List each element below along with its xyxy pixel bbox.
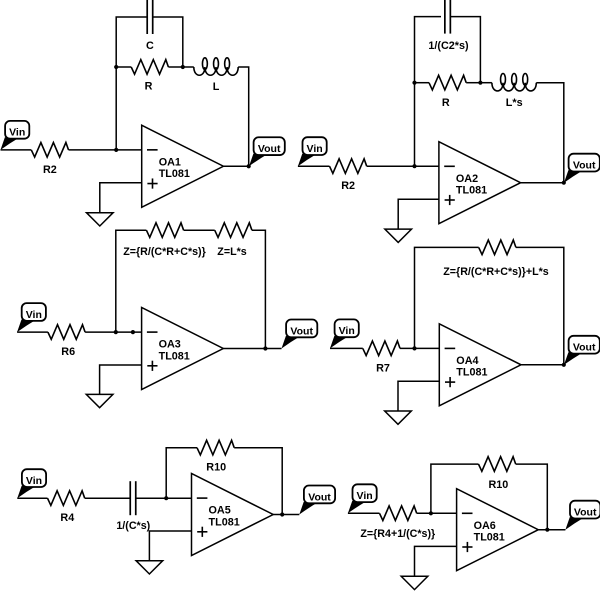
node R left junction (OA2) [412, 81, 416, 85]
wire Vin to Z resistor (OA6) [348, 512, 380, 514]
svg-text:1/(C2*s): 1/(C2*s) [428, 40, 469, 52]
node output junction (OA2) [562, 181, 566, 185]
op-amp OA6 [457, 489, 539, 571]
svg-text:Vin: Vin [339, 325, 355, 337]
svg-text:Z={R/(C*R+C*s)}: Z={R/(C*R+C*s)} [123, 246, 206, 258]
svg-text:R10: R10 [488, 479, 508, 491]
wire R4 to capacitor (OA5) [85, 497, 131, 499]
capacitor C [146, 0, 154, 52]
wire R left lead (OA2) [415, 82, 430, 84]
node R right junction (OA2) [478, 81, 482, 85]
wire R right lead (OA1) [168, 66, 182, 68]
wire feedback top middle (OA3) [184, 229, 215, 231]
svg-text:Vin: Vin [9, 127, 25, 139]
label Z={R/(C*R+C*s)} [123, 246, 206, 258]
wire R7 to op-amp inverting input (OA4) [400, 347, 439, 349]
resistor R2 (OA2) [330, 159, 367, 192]
svg-text:L*s: L*s [506, 97, 523, 109]
svg-text:Z={R4+1/(C*s)}: Z={R4+1/(C*s)} [360, 528, 435, 540]
wire Vin to R7 (OA4) [330, 347, 363, 349]
svg-text:TL081: TL081 [456, 367, 487, 379]
op-amp OA2 [439, 142, 521, 224]
wire feedback left vertical (OA3) [116, 230, 147, 332]
resistor R [131, 60, 168, 93]
resistor Z={R4+1/(C*s)} [380, 506, 417, 521]
resistor Z={R/(C*R+C*s)}+L*s [479, 240, 516, 255]
ground (OA3) [86, 365, 141, 408]
wire feedback left vertical (OA4) [415, 247, 479, 348]
svg-text:R2: R2 [43, 164, 57, 176]
net flag Vin (OA2) [298, 137, 327, 166]
wire inductor left lead (OA2) [480, 82, 492, 84]
svg-text:Vout: Vout [573, 342, 596, 354]
wire op-amp output (OA5) [273, 514, 299, 516]
node R left junction (OA1) [114, 65, 118, 69]
wire op-amp output (OA1) [223, 165, 249, 167]
svg-text:1/(C*s): 1/(C*s) [116, 520, 150, 532]
net flag Vin (OA4) [330, 319, 359, 348]
svg-text:R7: R7 [376, 362, 390, 374]
wire R2 to op-amp inverting input (OA1) [69, 149, 142, 151]
svg-text:OA4: OA4 [456, 355, 478, 367]
svg-text:TL081: TL081 [159, 168, 190, 180]
label Z=L*s [217, 246, 246, 258]
wire capacitor to op-amp (OA5) [136, 497, 192, 499]
label Z={R/(C*R+C*s)}+L*s [443, 266, 548, 278]
svg-text:TL081: TL081 [159, 350, 190, 362]
svg-text:Vin: Vin [357, 490, 373, 502]
node junction input (OA1) [114, 148, 118, 152]
net flag Vin (OA1) [1, 121, 30, 150]
wire op-amp output (OA6) [538, 529, 565, 531]
wire inductor left lead (OA1) [183, 66, 194, 68]
svg-text:R2: R2 [341, 180, 355, 192]
svg-text:Vin: Vin [26, 475, 42, 487]
svg-text:TL081: TL081 [456, 185, 487, 197]
svg-text:Vin: Vin [307, 143, 323, 155]
ground (OA2) [385, 199, 439, 242]
svg-text:R: R [145, 81, 153, 93]
node output junction (OA5) [280, 512, 284, 516]
node junction input (OA6) [429, 511, 433, 515]
resistor R10 (OA6) [479, 457, 516, 491]
wire Z to op-amp inverting input (OA6) [417, 512, 457, 514]
resistor R7 [363, 341, 400, 374]
wire feedback top right (OA4) [516, 247, 564, 364]
ground (OA1) [87, 183, 142, 226]
wire capacitor branch right (OA2) [451, 17, 480, 83]
wire R6 to op-amp inverting input (OA3) [85, 331, 142, 333]
op-amp OA3 [142, 308, 224, 390]
op-amp OA5 [192, 474, 274, 556]
wire feedback left vertical (OA6) [431, 464, 479, 513]
wire Vin to R2 (OA2) [298, 165, 330, 167]
svg-text:Vout: Vout [574, 507, 597, 519]
wire inductor to output (OA1) [238, 67, 249, 166]
svg-text:R6: R6 [61, 346, 75, 358]
resistor Z=L*s [215, 223, 252, 238]
svg-text:OA2: OA2 [456, 173, 478, 185]
svg-text:C: C [146, 40, 154, 52]
wire feedback top right (OA6) [516, 464, 548, 530]
node junction input (OA4) [412, 346, 416, 350]
inductor L*s [492, 74, 536, 109]
node output junction (OA6) [545, 528, 549, 532]
svg-text:Vout: Vout [308, 491, 331, 503]
node output junction (OA3) [263, 346, 267, 350]
net flag Vin (OA6) [348, 484, 377, 513]
node junction input (OA5) [164, 496, 168, 500]
wire capacitor branch right (OA1) [153, 17, 182, 67]
inductor L [194, 58, 238, 93]
wire Vin to R2 (OA1) [1, 149, 32, 151]
wire inductor to output (OA2) [536, 83, 564, 183]
capacitor 1/(C*s) [130, 481, 136, 515]
wire Vin to R4 (OA5) [17, 497, 47, 499]
node junction input right (OA3) [131, 330, 135, 334]
svg-text:L: L [213, 81, 220, 93]
wire feedback top right (OA5) [234, 448, 282, 515]
resistor R (OA2) [429, 75, 466, 109]
wire feedback left vertical (OA5) [166, 448, 197, 499]
svg-text:TL081: TL081 [209, 516, 240, 528]
net flag Vin (OA3) [17, 303, 46, 332]
svg-text:R4: R4 [60, 512, 74, 524]
svg-text:Vout: Vout [573, 160, 596, 172]
wire R right lead (OA2) [466, 82, 480, 84]
svg-text:OA5: OA5 [209, 505, 231, 517]
svg-text:R: R [442, 97, 450, 109]
node junction input (OA2) [412, 164, 416, 168]
wire feedback left vertical (OA2) [415, 17, 442, 167]
node output junction (OA4) [562, 363, 566, 367]
svg-text:R10: R10 [206, 462, 226, 474]
net flag Vout (OA1) [249, 137, 285, 166]
svg-text:Z={R/(C*R+C*s)}+L*s: Z={R/(C*R+C*s)}+L*s [443, 266, 548, 278]
wire Vin to R6 (OA3) [17, 331, 48, 333]
node junction input left (OA3) [114, 330, 118, 334]
resistor R10 (OA5) [197, 440, 234, 473]
op-amp OA1 [142, 125, 224, 207]
label Z={R4+1/(C*s)} [360, 528, 435, 540]
net flag Vout (OA4) [564, 336, 600, 365]
net flag Vin (OA5) [17, 469, 46, 498]
wire R left lead (OA1) [116, 66, 131, 68]
ground (OA4) [385, 381, 440, 424]
resistor R2 [31, 143, 68, 176]
wire op-amp output (OA3) [223, 348, 281, 350]
svg-text:OA1: OA1 [159, 156, 181, 168]
wire R2 to op-amp inverting input (OA2) [367, 165, 439, 167]
node output junction (OA1) [247, 164, 251, 168]
ground (OA5) [136, 531, 191, 574]
wire feedback left vertical (OA1) [116, 17, 146, 150]
net flag Vout (OA2) [564, 154, 600, 183]
svg-text:Z=L*s: Z=L*s [217, 246, 246, 258]
wire op-amp output (OA2) [521, 182, 564, 184]
label 1/(C*s) [116, 520, 150, 532]
wire op-amp output (OA4) [521, 364, 564, 366]
svg-text:Vin: Vin [26, 309, 42, 321]
ground (OA6) [401, 546, 456, 589]
svg-text:TL081: TL081 [474, 532, 505, 544]
capacitor 1/(C2*s) [428, 0, 469, 52]
resistor Z={R/(C*R+C*s)} [146, 223, 183, 238]
wire feedback top right (OA3) [252, 230, 266, 348]
svg-text:Vout: Vout [258, 143, 281, 155]
net flag Vout (OA6) [565, 501, 600, 530]
svg-text:OA6: OA6 [474, 520, 496, 532]
resistor R4 [48, 491, 85, 524]
svg-text:OA3: OA3 [159, 339, 181, 351]
svg-text:Vout: Vout [290, 325, 313, 337]
net flag Vout (OA3) [282, 320, 318, 349]
op-amp OA4 [439, 324, 521, 406]
node R right junction (OA1) [181, 65, 185, 69]
net flag Vout (OA5) [299, 486, 335, 515]
resistor R6 [48, 325, 85, 358]
